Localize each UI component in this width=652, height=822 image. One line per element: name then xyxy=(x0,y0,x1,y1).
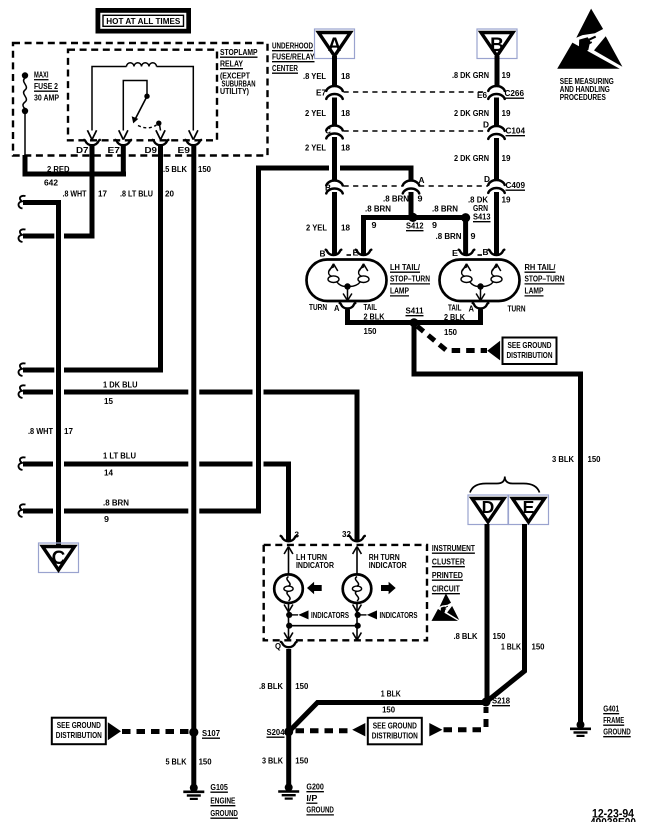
svg-text:20: 20 xyxy=(165,189,174,199)
inline connector C409 xyxy=(488,180,504,185)
svg-text:INDICATORS: INDICATORS xyxy=(380,610,418,620)
wire .8 BRN 9 (S412 to S413) xyxy=(413,215,466,220)
svg-text:17: 17 xyxy=(98,189,107,199)
svg-text:642: 642 xyxy=(44,178,58,188)
svg-text:150: 150 xyxy=(588,454,601,464)
svg-text:MAXI: MAXI xyxy=(34,70,49,80)
svg-text:32: 32 xyxy=(342,529,351,539)
connector D xyxy=(468,495,508,525)
wire 1 DK BLU 15 xyxy=(18,385,25,398)
svg-text:LAMP: LAMP xyxy=(525,286,544,296)
underhood fuse/relay center dashed box xyxy=(13,43,268,156)
svg-text:3 BLK: 3 BLK xyxy=(552,454,575,464)
svg-text:.8 BRN: .8 BRN xyxy=(383,194,409,204)
svg-text:49038E00: 49038E00 xyxy=(590,818,636,822)
wire 2 DK GRN 19 (C104-C409) xyxy=(494,138,499,180)
wire 2 RED 642 xyxy=(25,155,126,174)
svg-text:19: 19 xyxy=(502,108,511,118)
svg-text:9: 9 xyxy=(372,220,377,230)
svg-text:TURN: TURN xyxy=(508,303,526,313)
svg-text:3: 3 xyxy=(295,530,300,540)
svg-text:.8 BLK: .8 BLK xyxy=(259,681,284,691)
lamp RH TURN INDICATOR xyxy=(353,547,357,555)
svg-text:E7: E7 xyxy=(108,145,121,155)
svg-text:9: 9 xyxy=(471,231,476,241)
svg-text:2 YEL: 2 YEL xyxy=(306,223,328,233)
svg-text:.8 BRN: .8 BRN xyxy=(103,498,129,508)
svg-text:C: C xyxy=(52,548,66,569)
ground distribution callout at S411 xyxy=(417,326,487,351)
svg-text:D9: D9 xyxy=(145,145,158,155)
dashed line E7-E6 level xyxy=(344,91,487,93)
ground G200 I/P GROUND xyxy=(285,783,293,791)
svg-text:S411: S411 xyxy=(406,306,424,316)
svg-text:2 RED: 2 RED xyxy=(47,164,70,174)
splice S218 xyxy=(482,698,491,707)
svg-text:G105: G105 xyxy=(210,782,228,792)
wire .8 DK GRN 19 xyxy=(495,56,500,86)
svg-text:150: 150 xyxy=(295,756,308,766)
svg-text:C: C xyxy=(325,126,332,136)
inline connector C xyxy=(326,126,342,131)
svg-text:3 BLK: 3 BLK xyxy=(262,756,284,766)
relay switch xyxy=(123,81,147,131)
svg-text:INSTRUMENT: INSTRUMENT xyxy=(432,543,476,553)
svg-text:150: 150 xyxy=(295,681,308,691)
inline connector B xyxy=(326,181,342,186)
svg-text:I/P: I/P xyxy=(306,793,317,803)
svg-text:150: 150 xyxy=(364,326,377,336)
svg-text:G200: G200 xyxy=(306,782,324,792)
ground distribution callout at S107 xyxy=(52,718,106,745)
svg-text:A: A xyxy=(328,35,342,56)
relay pin D7 xyxy=(87,130,92,139)
svg-text:15: 15 xyxy=(104,396,113,406)
wire 1 LT BLU 14 xyxy=(18,457,25,470)
svg-text:18: 18 xyxy=(341,71,350,81)
svg-text:9: 9 xyxy=(432,220,437,230)
svg-text:PROCEDURES: PROCEDURES xyxy=(560,92,606,102)
ESD warning symbol (small) xyxy=(432,593,460,621)
svg-text:E7: E7 xyxy=(316,88,326,98)
svg-text:HOT AT ALL TIMES: HOT AT ALL TIMES xyxy=(106,16,180,26)
svg-text:G401: G401 xyxy=(603,704,619,714)
wire .8 WHT 17 to connector C xyxy=(18,196,25,209)
svg-text:E6: E6 xyxy=(477,90,487,100)
wire .8 DK GRN 19 (C409-lamp) xyxy=(494,192,499,255)
svg-text:CIRCUIT: CIRCUIT xyxy=(432,584,461,594)
svg-text:19: 19 xyxy=(502,153,511,163)
svg-text:C104: C104 xyxy=(506,126,526,136)
svg-text:DISTRIBUTION: DISTRIBUTION xyxy=(56,730,102,740)
svg-text:PRINTED: PRINTED xyxy=(432,570,463,580)
svg-text:C266: C266 xyxy=(505,88,525,98)
svg-text:2 BLK: 2 BLK xyxy=(444,312,466,322)
svg-text:S107: S107 xyxy=(202,728,220,738)
svg-text:STOPLAMP: STOPLAMP xyxy=(220,47,258,57)
wire .8 BRN 9 (S412 to LH lamp E) xyxy=(364,218,413,256)
pin 3 (cluster) xyxy=(281,536,297,541)
wire .8 WHT 17 from D7 xyxy=(64,146,92,236)
svg-text:150: 150 xyxy=(198,164,211,174)
svg-text:S218: S218 xyxy=(492,696,510,706)
svg-text:E: E xyxy=(523,497,535,517)
svg-text:.8 WHT: .8 WHT xyxy=(28,426,54,436)
svg-text:2 DK GRN: 2 DK GRN xyxy=(454,108,489,118)
wire .8 YEL 18 xyxy=(332,56,337,86)
svg-text:30 AMP: 30 AMP xyxy=(34,93,59,103)
wire .8 BLK 150 (Q to S204) xyxy=(286,649,291,730)
wire 3 BLK 150 (S411 to G401) xyxy=(414,323,581,722)
wire .5 BLK 150 from E9 to S107 xyxy=(191,146,196,785)
relay coil xyxy=(127,63,157,67)
svg-text:RH TAIL/: RH TAIL/ xyxy=(525,262,557,272)
wire .8 BRN 9 to splice S412 via inline A xyxy=(18,504,25,517)
relay pin E9 xyxy=(189,130,194,139)
dashed line C-D level xyxy=(344,130,485,132)
svg-text:A: A xyxy=(334,303,340,313)
pin Q (cluster) xyxy=(281,642,297,647)
svg-text:5 BLK: 5 BLK xyxy=(166,757,188,767)
svg-text:LH TAIL/: LH TAIL/ xyxy=(390,262,420,272)
svg-text:1 BLK: 1 BLK xyxy=(501,642,522,652)
svg-text:150: 150 xyxy=(382,705,395,715)
svg-text:9: 9 xyxy=(104,514,109,524)
svg-text:2 YEL: 2 YEL xyxy=(305,143,327,153)
svg-text:1 LT BLU: 1 LT BLU xyxy=(103,451,136,461)
svg-text:2 YEL: 2 YEL xyxy=(305,108,327,118)
pin 32 (cluster) xyxy=(349,536,365,541)
wire 2 YEL 18 (B-lamp) xyxy=(332,192,337,255)
svg-text:TURN: TURN xyxy=(309,302,327,312)
wire 3 BLK 150 (S204 to G200) xyxy=(286,733,291,785)
wire .8 BLK 150 (D to S218) xyxy=(485,524,490,699)
svg-text:TAIL: TAIL xyxy=(364,302,378,312)
svg-text:CENTER: CENTER xyxy=(272,64,298,73)
svg-text:B: B xyxy=(490,35,504,56)
svg-text:17: 17 xyxy=(64,426,73,436)
svg-text:.8 BLK: .8 BLK xyxy=(454,631,479,641)
inline connector C266 xyxy=(488,86,504,91)
svg-text:SEE GROUND: SEE GROUND xyxy=(57,720,101,730)
wire .8 BRN 9 (A to S412) xyxy=(409,192,414,215)
svg-text:TAIL: TAIL xyxy=(448,302,462,312)
dashed line B-A-D level xyxy=(344,185,404,187)
svg-text:18: 18 xyxy=(341,223,350,233)
wire (cluster internal) between indicators xyxy=(289,625,357,627)
svg-text:150: 150 xyxy=(532,642,545,652)
svg-text:.8 BRN: .8 BRN xyxy=(432,204,458,214)
svg-text:DISTRIBUTION: DISTRIBUTION xyxy=(507,350,553,360)
wire .8 LT BLU 20 from D9 xyxy=(64,146,161,370)
connector C xyxy=(39,543,79,573)
svg-text:RELAY: RELAY xyxy=(220,59,243,69)
svg-text:LAMP: LAMP xyxy=(390,286,409,296)
svg-text:.8 LT BLU: .8 LT BLU xyxy=(120,189,153,199)
relay pin E7 xyxy=(119,130,124,139)
wire 2 DK GRN 19 (C266-C104) xyxy=(494,98,499,126)
wire .8 BRN 9 (S413 to RH lamp E) xyxy=(463,218,468,256)
svg-text:INDICATOR: INDICATOR xyxy=(296,560,335,570)
lamp RH TAIL/STOP-TURN LAMP xyxy=(440,260,520,302)
svg-text:STOP–TURN: STOP–TURN xyxy=(390,274,430,284)
svg-text:E: E xyxy=(353,248,359,258)
svg-text:INDICATORS: INDICATORS xyxy=(311,610,349,620)
svg-text:DISTRIBUTION: DISTRIBUTION xyxy=(372,730,418,740)
svg-text:E9: E9 xyxy=(178,145,191,155)
svg-text:.8 DK GRN: .8 DK GRN xyxy=(452,70,489,80)
svg-text:9: 9 xyxy=(418,194,423,204)
svg-text:FRAME: FRAME xyxy=(603,715,624,725)
brace over connectors D and E xyxy=(470,477,540,493)
svg-text:18: 18 xyxy=(341,143,350,153)
svg-text:S412: S412 xyxy=(406,221,424,231)
svg-text:2 BLK: 2 BLK xyxy=(364,311,386,321)
relay K? stoplamp relay dashed box xyxy=(68,50,217,141)
connector E xyxy=(509,495,549,525)
splice S411 xyxy=(410,318,419,327)
svg-text:Q: Q xyxy=(275,641,281,651)
svg-text:150: 150 xyxy=(493,631,506,641)
label box HOT AT ALL TIMES xyxy=(96,8,192,34)
lamp LH TAIL/STOP-TURN LAMP xyxy=(307,260,387,302)
svg-text:C409: C409 xyxy=(506,180,526,190)
svg-text:FUSE 2: FUSE 2 xyxy=(34,81,58,91)
svg-text:B: B xyxy=(483,247,489,257)
svg-text:CLUSTER: CLUSTER xyxy=(432,557,466,567)
svg-text:D: D xyxy=(483,120,489,130)
wire 2 YEL 18 (C-B) xyxy=(332,137,337,181)
inline connector A xyxy=(403,181,419,186)
fuse F2 MAXI FUSE 2 30 AMP xyxy=(22,72,28,78)
svg-text:E: E xyxy=(452,248,458,258)
connector A xyxy=(315,29,355,59)
svg-text:19: 19 xyxy=(502,70,511,80)
svg-text:D: D xyxy=(482,497,495,517)
svg-text:SEE GROUND: SEE GROUND xyxy=(508,340,552,350)
svg-text:INDICATOR: INDICATOR xyxy=(369,560,408,570)
svg-text:GROUND: GROUND xyxy=(603,727,631,737)
svg-text:UTILITY): UTILITY) xyxy=(220,86,249,96)
svg-text:GROUND: GROUND xyxy=(210,808,238,818)
lamp LH TURN INDICATOR xyxy=(284,547,288,555)
splice S412 xyxy=(408,213,417,222)
svg-text:GROUND: GROUND xyxy=(306,805,334,815)
svg-text:150: 150 xyxy=(199,757,212,767)
ground G401 FRAME GROUND xyxy=(577,721,585,729)
svg-text:18: 18 xyxy=(341,108,350,118)
wire 1 BLK 150 (S204 to S218) xyxy=(290,703,486,731)
wire 2 BLK 150 (LH lamp to S411) xyxy=(348,310,413,323)
ground G105 ENGINE GROUND xyxy=(190,784,198,792)
svg-text:.8 YEL: .8 YEL xyxy=(303,71,327,81)
svg-text:150: 150 xyxy=(444,327,457,337)
instrument cluster dashed box xyxy=(264,545,427,640)
splice S413 xyxy=(461,213,470,222)
svg-text:.8 BRN: .8 BRN xyxy=(365,204,391,214)
svg-text:.5 BLK: .5 BLK xyxy=(163,164,188,174)
svg-text:1 DK BLU: 1 DK BLU xyxy=(103,380,138,390)
svg-text:19: 19 xyxy=(502,195,511,205)
svg-text:FUSE/RELAY: FUSE/RELAY xyxy=(272,53,315,62)
svg-text:S413: S413 xyxy=(473,212,491,222)
inline connector C104 xyxy=(488,126,504,131)
svg-text:2 DK GRN: 2 DK GRN xyxy=(454,153,489,163)
svg-text:D7: D7 xyxy=(76,145,89,155)
splice S204 xyxy=(284,727,293,736)
wire 1 BLK 150 (E to S218) xyxy=(488,524,525,701)
svg-text:STOP–TURN: STOP–TURN xyxy=(525,274,565,284)
inline connector E7 xyxy=(326,86,342,91)
wire 2 BLK 150 (RH lamp to S411) xyxy=(416,310,481,323)
svg-text:.8 BRN: .8 BRN xyxy=(436,231,462,241)
svg-text:ENGINE: ENGINE xyxy=(210,796,235,806)
svg-text:UNDERHOOD: UNDERHOOD xyxy=(272,42,313,51)
svg-text:1 BLK: 1 BLK xyxy=(381,689,402,699)
connector B xyxy=(477,29,517,59)
relay pin D9 xyxy=(156,130,161,139)
ground distribution callout between S204 and S218 xyxy=(296,728,352,733)
svg-text:D: D xyxy=(484,174,490,184)
svg-text:A: A xyxy=(469,303,475,313)
svg-text:S204: S204 xyxy=(267,727,285,737)
svg-text:.8 WHT: .8 WHT xyxy=(63,189,88,199)
svg-text:B: B xyxy=(320,249,326,259)
svg-text:14: 14 xyxy=(104,468,113,478)
svg-text:SEE GROUND: SEE GROUND xyxy=(373,720,417,730)
wire 2 YEL 18 (A-C) xyxy=(332,98,337,126)
svg-text:B: B xyxy=(325,183,331,193)
splice S107 xyxy=(189,728,198,737)
